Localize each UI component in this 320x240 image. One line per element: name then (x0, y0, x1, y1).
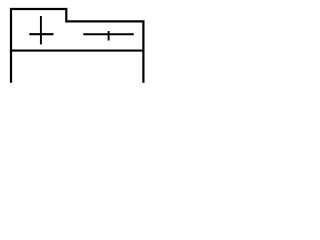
plus polarity marker, vertical bar (40, 16, 42, 44)
right crossed line, horizontal (83, 33, 133, 35)
plus polarity marker, horizontal bar (29, 33, 53, 35)
right crossed line, center tick (108, 31, 110, 41)
stepped enclosure outline (wire) (11, 9, 143, 83)
middle horizontal wire (10, 50, 145, 52)
